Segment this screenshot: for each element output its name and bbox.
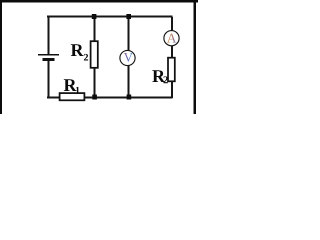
label R2 letter R — [71, 44, 84, 56]
wire voltmeter branch lower — [128, 66, 130, 98]
label R2b letter R — [152, 70, 165, 82]
wire ammeter to resistor R2b — [171, 46, 173, 58]
label R2 subscript 2 — [84, 54, 88, 61]
frame right border — [194, 0, 197, 114]
wire R2 branch upper — [94, 17, 96, 42]
wire R2b branch lower — [171, 82, 173, 99]
frame top border — [0, 0, 198, 2]
wire left branch upper — [48, 16, 50, 54]
wire ammeter branch upper — [171, 17, 173, 31]
battery B1 short plate — [43, 58, 55, 61]
node junction dot top right — [126, 14, 131, 19]
label R1 subscript 1 — [76, 87, 80, 94]
label R1 letter R — [64, 79, 77, 91]
wire voltmeter branch upper — [128, 17, 130, 51]
resistor R2b body (right branch) — [168, 58, 175, 82]
wire top horizontal — [47, 16, 173, 18]
ammeter A1 circle — [164, 31, 179, 46]
battery B1 long plate — [38, 54, 59, 56]
node junction dot bottom left — [92, 95, 97, 100]
wire left branch lower — [48, 61, 50, 98]
resistor R2 body — [91, 41, 98, 68]
frame left border — [0, 0, 2, 114]
wire bottom horizontal — [47, 97, 173, 99]
label R2b subscript 2 — [163, 76, 167, 83]
node junction dot bottom right — [127, 95, 132, 100]
voltmeter V1 circle — [120, 50, 135, 65]
resistor R1 body (horizontal, in bottom wire) — [60, 93, 85, 100]
voltmeter V letter glyph — [124, 53, 133, 62]
ammeter A letter glyph — [167, 34, 177, 43]
node junction dot top left — [92, 14, 97, 19]
wire R2 branch lower — [94, 68, 96, 97]
